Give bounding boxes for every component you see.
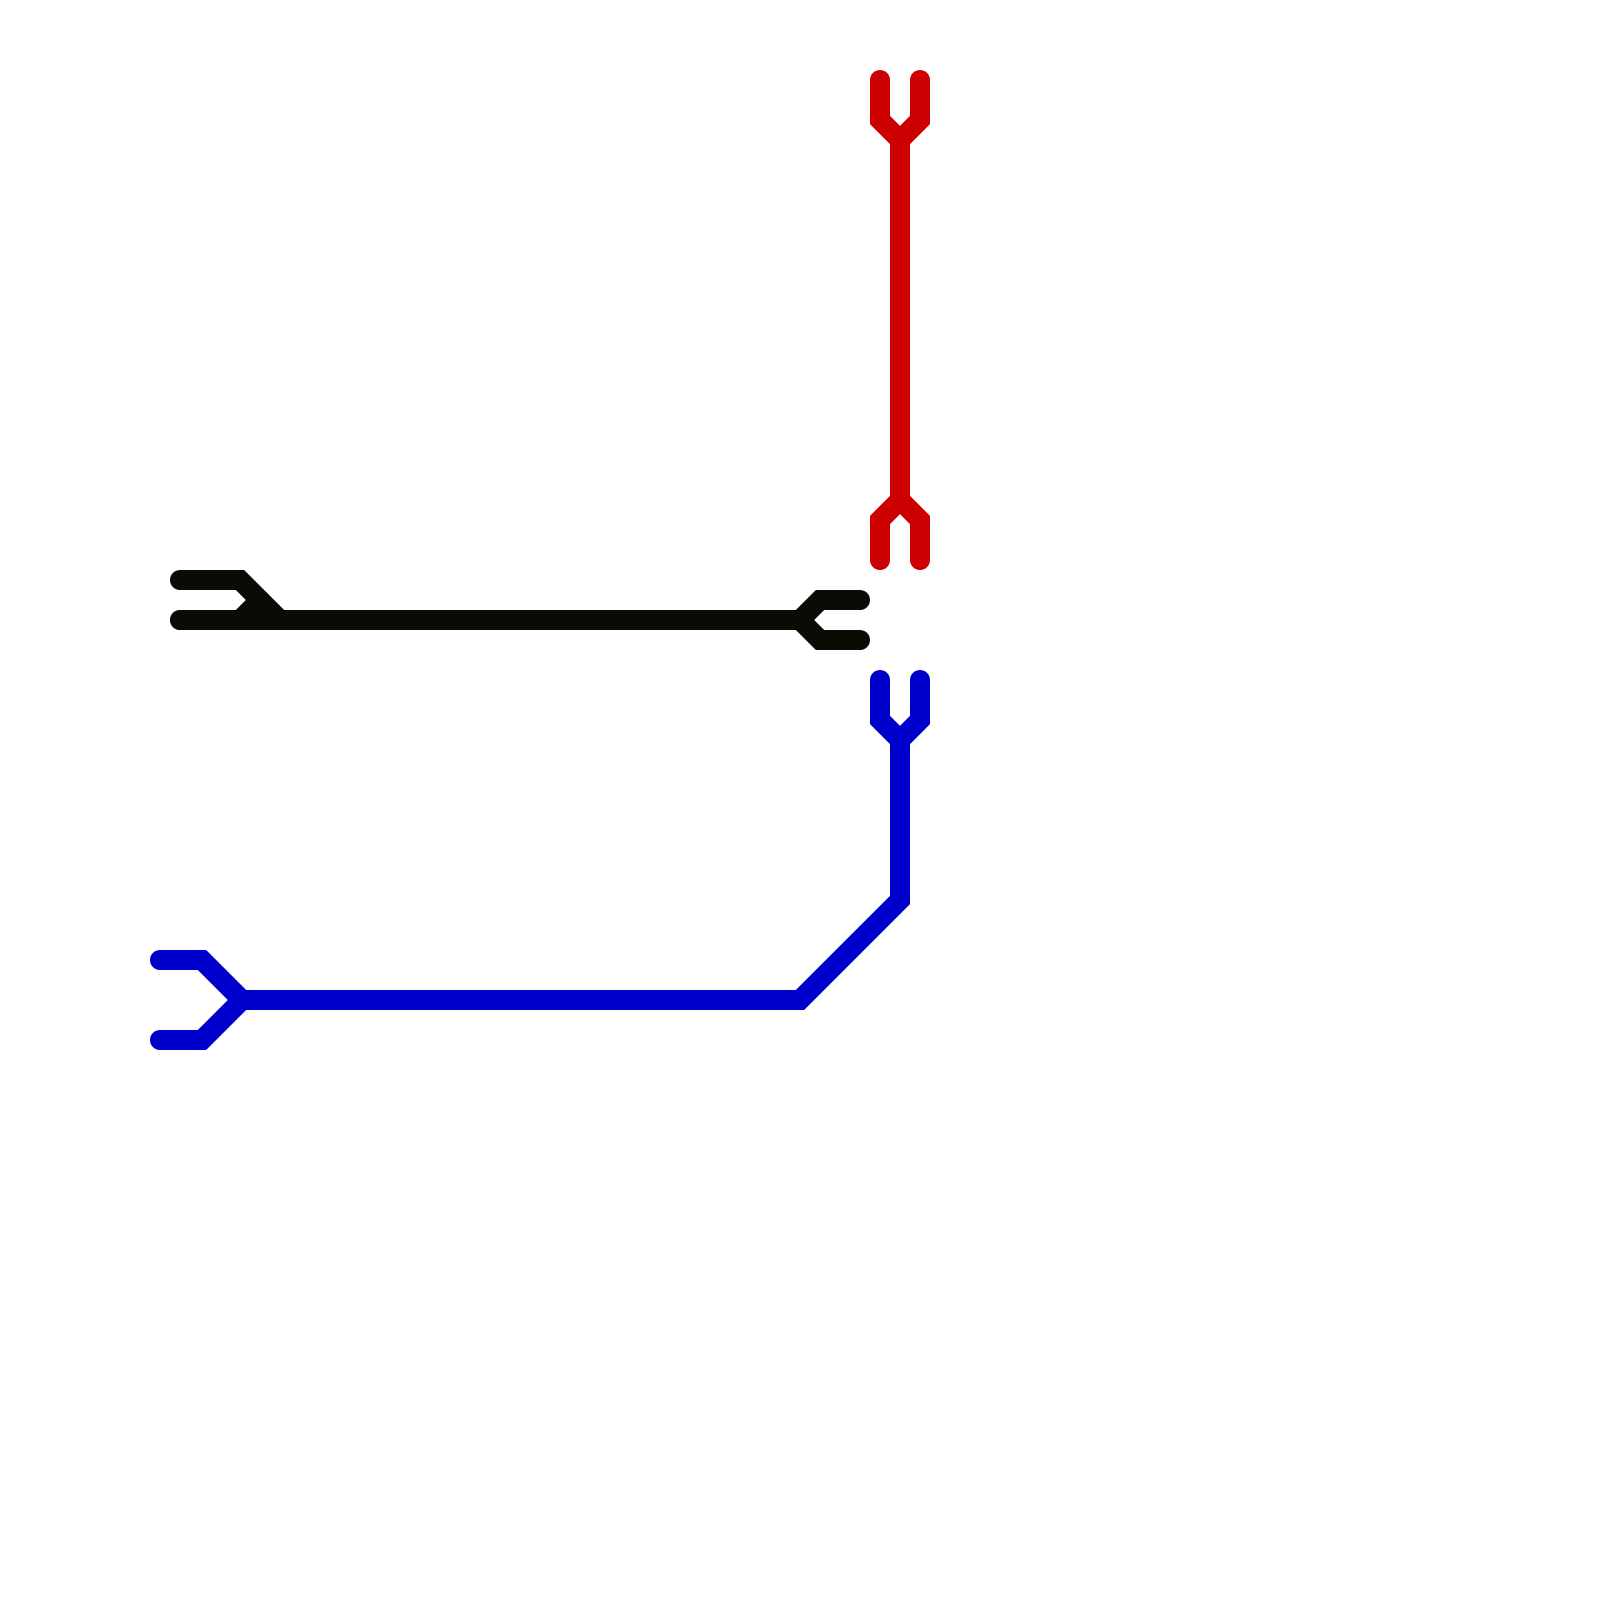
open terminal fork T3 (black, left end of W2, prongs left, axis offset 20px above wire) bbox=[180, 580, 280, 620]
open terminal fork T5 (blue, top end of W3, prongs up) bbox=[880, 680, 920, 740]
wire W3 (blue net, bent: vertical x=900 y=740..900, 45-degree jog, horizontal y=1000 to x=242) bbox=[242, 740, 900, 1000]
wire W1 (red net, vertical segment x=900 from y=140 to y=500) bbox=[890, 140, 910, 500]
open terminal fork T6 (blue, left end of W3, wide prongs left) bbox=[160, 960, 242, 1040]
open terminal fork T2 (red, bottom end of W1, prongs down) bbox=[880, 500, 920, 560]
open terminal fork T4 (black, right end of W2, prongs right) bbox=[800, 600, 860, 640]
wire W2 (black net, horizontal segment y=620 from x=180 to x=800) bbox=[180, 610, 800, 630]
open terminal fork T1 (red, top end of W1, prongs up) bbox=[880, 80, 920, 140]
